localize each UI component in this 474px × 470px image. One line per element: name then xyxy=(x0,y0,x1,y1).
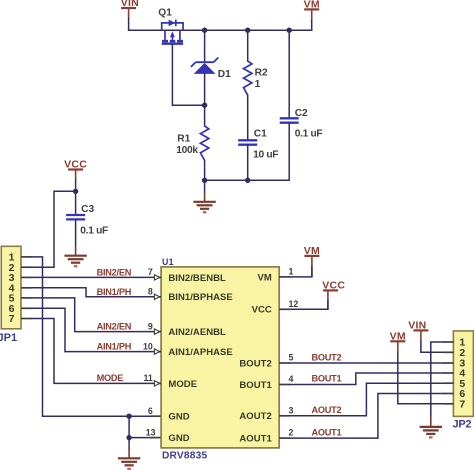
U1 pin 7 input arrow xyxy=(154,275,159,280)
junction rail / R2 xyxy=(245,28,250,33)
JP2 pin 1 stub xyxy=(443,341,454,343)
svg-text:2: 2 xyxy=(289,428,294,438)
junction bottom rail / ground xyxy=(202,178,207,183)
svg-text:8: 8 xyxy=(148,287,153,297)
transistor Q1 (P-MOSFET with body diode) xyxy=(162,20,183,44)
JP1 pin 1 stub xyxy=(21,256,32,258)
JP1 pin 4 stub xyxy=(21,287,32,289)
wire BOUT2 net xyxy=(290,362,444,364)
wire JP2 pin1 to ground xyxy=(431,342,443,417)
wire C3 to ground xyxy=(75,219,77,245)
svg-text:AOUT2: AOUT2 xyxy=(239,411,271,422)
ground (top section) xyxy=(193,192,215,213)
svg-text:AIN1/PH: AIN1/PH xyxy=(97,342,132,352)
svg-text:U1: U1 xyxy=(162,257,174,267)
JP2 pin 7 stub xyxy=(443,403,454,405)
U1 pin 1 stub xyxy=(279,276,289,278)
junction rail / D1 xyxy=(202,28,207,33)
svg-text:4: 4 xyxy=(289,374,294,384)
wire pin6 net xyxy=(129,415,151,417)
wire rail through Q1 xyxy=(162,29,183,31)
svg-text:BIN2/EN: BIN2/EN xyxy=(97,267,132,277)
U1 pin 13 stub xyxy=(151,437,161,439)
U1 pin 8 input arrow xyxy=(154,294,159,299)
connector JP1 box xyxy=(1,246,21,328)
svg-text:R2: R2 xyxy=(255,68,268,79)
wire D1 anode to gate node xyxy=(204,74,206,105)
svg-text:MODE: MODE xyxy=(168,379,197,390)
wire GND down to pin13 xyxy=(128,416,130,437)
svg-text:BOUT2: BOUT2 xyxy=(312,352,342,362)
svg-text:JP2: JP2 xyxy=(453,419,472,431)
wire rail to R2 xyxy=(247,30,249,61)
wire BOUT1 net xyxy=(290,373,444,385)
svg-text:13: 13 xyxy=(146,428,156,438)
JP1 pin 7 stub xyxy=(21,318,32,320)
svg-text:C1: C1 xyxy=(254,129,267,140)
resistor R2 xyxy=(244,61,252,95)
svg-text:100k: 100k xyxy=(176,145,198,156)
svg-text:BIN2/BENBL: BIN2/BENBL xyxy=(168,273,226,284)
power symbol VM (JP2) xyxy=(390,331,406,364)
U1 pin 10 stub xyxy=(154,351,161,353)
svg-text:VCC: VCC xyxy=(252,305,272,316)
svg-text:BOUT1: BOUT1 xyxy=(239,380,272,391)
svg-text:C3: C3 xyxy=(81,204,94,215)
ground (U1) xyxy=(118,448,140,469)
svg-text:AOUT1: AOUT1 xyxy=(239,434,272,445)
wire VCC node to JP1 pin2 xyxy=(32,191,76,267)
svg-text:Q1: Q1 xyxy=(158,7,172,18)
wire R2 to C1 xyxy=(247,95,249,140)
wire rail to D1 cathode xyxy=(204,30,206,62)
svg-text:DRV8835: DRV8835 xyxy=(162,451,208,462)
wire VIN to JP2 pin2 xyxy=(421,351,443,353)
wire bottom rail xyxy=(205,179,290,181)
JP1 pin 6 stub xyxy=(21,307,32,309)
wire AOUT2 net xyxy=(290,383,444,416)
wire VIN rail to Q1 xyxy=(129,29,162,31)
svg-text:7: 7 xyxy=(148,267,153,277)
svg-text:BOUT2: BOUT2 xyxy=(239,358,271,369)
wire JP1 pin6 AIN1/PH xyxy=(32,308,155,351)
zener diode D1 xyxy=(191,58,218,74)
svg-text:MODE: MODE xyxy=(97,373,124,383)
JP2 pin 4 stub xyxy=(443,372,454,374)
power symbol VIN (top) xyxy=(121,0,139,30)
svg-text:BOUT1: BOUT1 xyxy=(312,373,342,383)
U1 pin 7 stub xyxy=(154,276,161,278)
U1 pin 6 stub xyxy=(151,415,161,417)
svg-text:GND: GND xyxy=(168,412,189,423)
svg-text:AOUT2: AOUT2 xyxy=(312,405,342,415)
ground (C3) xyxy=(64,245,86,266)
capacitor C1 xyxy=(238,140,257,144)
U1 pin 12 stub xyxy=(279,308,289,310)
junction VCC node xyxy=(73,189,78,194)
U1 pin 11 input arrow xyxy=(154,381,159,386)
wire JP1 pin3 BIN2/EN xyxy=(32,276,155,278)
wire JP1 pin1 to GND net xyxy=(32,257,130,416)
JP1 pin 2 stub xyxy=(21,266,32,268)
svg-text:11: 11 xyxy=(143,373,152,383)
svg-text:7: 7 xyxy=(459,398,465,410)
svg-text:1: 1 xyxy=(255,79,261,90)
JP1 pin 3 stub xyxy=(21,276,32,278)
wire Q1 gate down to node xyxy=(172,45,204,105)
power symbol VCC (U1) xyxy=(322,280,345,310)
junction gate node xyxy=(202,103,207,108)
ground (JP2) xyxy=(420,417,442,438)
svg-text:R1: R1 xyxy=(177,133,190,144)
U1 pin 9 stub xyxy=(154,331,161,333)
wire C2 to bottom rail xyxy=(288,123,290,181)
U1 pin 4 stub xyxy=(279,384,289,386)
svg-text:7: 7 xyxy=(9,313,15,325)
connector JP2 box xyxy=(453,331,473,417)
junction rail / C2 xyxy=(287,28,292,33)
capacitor C3 xyxy=(66,215,85,219)
JP2 pin 2 stub xyxy=(443,351,454,353)
U1 pin 5 stub xyxy=(279,362,289,364)
capacitor C2 xyxy=(280,118,299,122)
svg-text:3: 3 xyxy=(289,405,294,415)
wire JP1 pin5 AIN2/EN xyxy=(32,298,155,332)
svg-text:12: 12 xyxy=(289,299,299,309)
svg-text:9: 9 xyxy=(148,321,153,331)
JP2 pin 3 stub xyxy=(443,362,454,364)
svg-text:0.1 uF: 0.1 uF xyxy=(80,225,108,236)
svg-text:D1: D1 xyxy=(218,69,231,80)
wire pin13 net xyxy=(129,437,151,439)
wire Q1 to VM rail xyxy=(183,29,312,31)
U1 pin 11 stub xyxy=(154,382,161,384)
svg-text:AIN2/AENBL: AIN2/AENBL xyxy=(168,327,226,338)
svg-text:JP1: JP1 xyxy=(0,332,17,344)
wire C1 to bottom rail xyxy=(247,145,249,181)
svg-text:1: 1 xyxy=(289,267,294,277)
wire rail to C2 xyxy=(288,30,290,118)
wire VM to JP2 pin7 xyxy=(398,363,443,404)
svg-text:VM: VM xyxy=(257,272,271,283)
svg-text:5: 5 xyxy=(289,353,294,363)
U1 pin 8 stub xyxy=(154,296,161,298)
U1 pin 9 input arrow xyxy=(154,329,159,334)
svg-text:0.1 uF: 0.1 uF xyxy=(295,129,323,140)
JP2 pin 5 stub xyxy=(443,382,454,384)
wire U1 pin1 to VM xyxy=(290,267,312,277)
svg-text:AOUT1: AOUT1 xyxy=(312,427,342,437)
junction bottom rail / C1 xyxy=(245,178,250,183)
wire VCC node to C3 xyxy=(75,191,77,215)
wire GND to ground symbol xyxy=(128,438,130,448)
svg-text:GND: GND xyxy=(168,433,189,444)
wire JP1 pin4 BIN1/PH xyxy=(32,288,155,297)
svg-text:AIN2/EN: AIN2/EN xyxy=(97,322,132,332)
JP1 pin 5 stub xyxy=(21,297,32,299)
IC U1 box xyxy=(161,267,279,448)
junction GND / U1 pin13 xyxy=(126,435,131,440)
power symbol VCC (left) xyxy=(64,159,87,192)
power symbol VIN (JP2) xyxy=(408,320,428,353)
wire JP1 pin7 MODE xyxy=(32,319,155,384)
resistor R1 xyxy=(200,126,208,161)
svg-text:BIN1/BPHASE: BIN1/BPHASE xyxy=(168,292,232,303)
wire node to R1 xyxy=(204,105,206,126)
U1 pin 10 input arrow xyxy=(154,349,159,354)
U1 pin 3 stub xyxy=(279,415,289,417)
power symbol VM (U1) xyxy=(304,245,320,277)
U1 pin 2 stub xyxy=(279,437,289,439)
JP2 pin 6 stub xyxy=(443,393,454,395)
svg-text:AIN1/APHASE: AIN1/APHASE xyxy=(168,347,232,358)
wire rail to ground xyxy=(204,180,206,191)
wire AOUT1 net xyxy=(290,394,444,439)
svg-text:10: 10 xyxy=(143,341,153,351)
svg-text:BIN1/PH: BIN1/PH xyxy=(97,287,132,297)
svg-text:10 uF: 10 uF xyxy=(253,150,278,161)
svg-text:6: 6 xyxy=(148,406,153,416)
power symbol VM (top) xyxy=(304,0,320,30)
wire R1 to bottom rail xyxy=(204,161,206,181)
junction GND / U1 pin6 xyxy=(126,414,131,419)
wire U1 pin12 to VCC xyxy=(290,300,328,309)
